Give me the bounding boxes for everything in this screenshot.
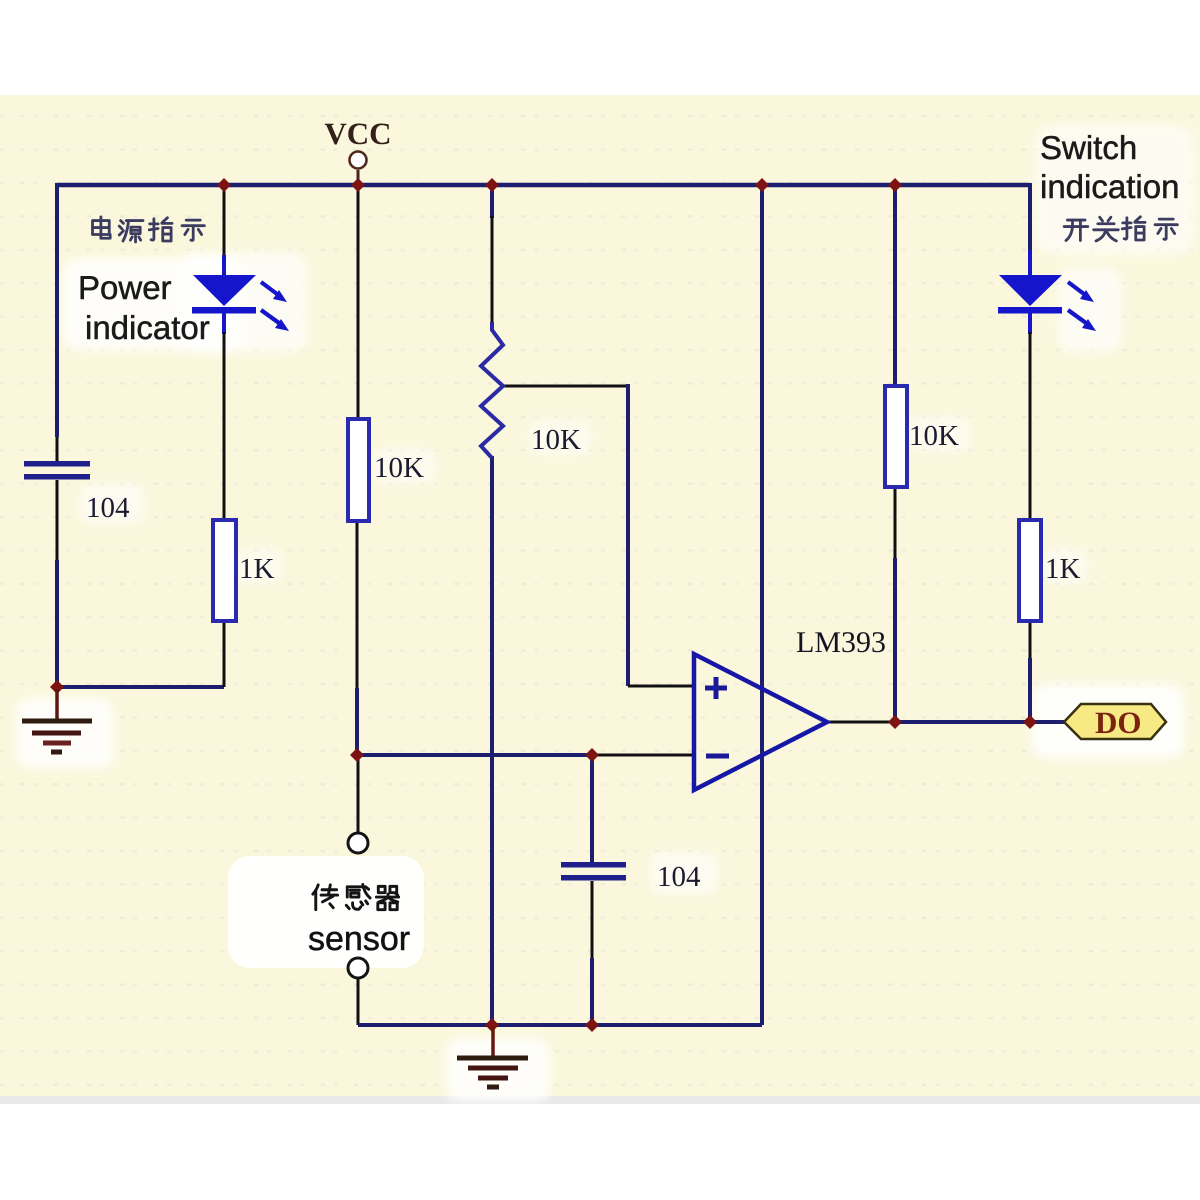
wire sensor top xyxy=(357,755,360,832)
capacitor C2 xyxy=(561,861,701,893)
svg-text:DO: DO xyxy=(1095,705,1142,740)
svg-text:LM393: LM393 xyxy=(796,626,886,659)
LED D1 power indicator xyxy=(192,275,289,331)
wire wiper vertical xyxy=(626,384,630,686)
wire R1 bottom lead xyxy=(356,521,359,690)
potentiometer RP 10K xyxy=(481,322,581,458)
wire VCC top bus xyxy=(57,183,1030,188)
resistor R3 10K xyxy=(885,386,959,487)
wire C2 to ground bus xyxy=(590,958,594,1025)
wire non-inverting stub xyxy=(628,685,694,688)
wire R1 branch upper xyxy=(357,187,360,419)
wire LED1 cathode lead xyxy=(222,312,226,334)
wire R3 bottom lead xyxy=(894,487,897,560)
wire op-amp output xyxy=(827,721,900,724)
svg-text:1K: 1K xyxy=(239,553,275,585)
svg-text:indicator: indicator xyxy=(85,309,210,346)
svg-text:10K: 10K xyxy=(531,424,581,456)
wire horizontal to 1K xyxy=(57,685,224,689)
wire ground bus bottom xyxy=(358,1023,762,1027)
wire inverting input xyxy=(357,753,592,757)
wire R1 to node A xyxy=(355,688,359,755)
svg-text:1K: 1K xyxy=(1045,553,1081,585)
wire LED1 branch upper xyxy=(223,185,226,257)
wire output to DO xyxy=(898,720,1064,724)
svg-text:sensor: sensor xyxy=(308,920,410,958)
wire LED2 to R4 xyxy=(1029,332,1032,520)
ground GND1 xyxy=(22,689,92,752)
svg-text:10K: 10K xyxy=(374,452,424,484)
wire RP branch upper xyxy=(490,185,494,218)
svg-text:Switch: Switch xyxy=(1040,129,1137,166)
port DO xyxy=(1064,704,1166,740)
wire LED2 anode lead xyxy=(1028,250,1032,276)
wire R4 bottom lead xyxy=(1029,621,1032,660)
sensor terminal top xyxy=(348,833,368,853)
wire LED1 anode lead xyxy=(222,255,226,276)
wire LED2 cathode lead xyxy=(1028,312,1032,334)
wire left rail upper xyxy=(55,183,59,437)
op-amp U1 LM393 xyxy=(694,626,886,790)
wire RP wiper tap xyxy=(503,385,628,388)
wire left cap bottom lead xyxy=(56,480,59,560)
wire LED2 branch upper xyxy=(1028,183,1032,252)
wire LED1 to R2 xyxy=(223,332,226,520)
wire RP top lead xyxy=(491,216,494,326)
wire R4 to output node xyxy=(1028,658,1032,722)
label 传感器 xyxy=(313,884,399,909)
wire sensor bottom xyxy=(357,978,360,1025)
resistor R2 1K xyxy=(213,520,275,621)
label 电源指示 xyxy=(93,217,205,242)
sensor terminal bottom xyxy=(348,958,368,978)
wire R3 branch upper xyxy=(893,187,897,386)
wire left rail lower xyxy=(55,560,59,687)
label 开关指示 xyxy=(1064,217,1177,241)
wire R3 to output node xyxy=(893,558,897,722)
svg-text:VCC: VCC xyxy=(324,116,391,151)
resistor R4 1K xyxy=(1019,520,1081,621)
wire RP bottom to ground bus xyxy=(490,456,494,1025)
svg-text:104: 104 xyxy=(657,861,701,893)
capacitor C1 xyxy=(24,461,130,524)
resistor R1 10K xyxy=(348,419,424,521)
wire R2 bottom lead xyxy=(223,621,226,687)
svg-text:indication: indication xyxy=(1040,168,1179,205)
wire inverting input stub xyxy=(592,754,694,757)
svg-text:104: 104 xyxy=(86,492,130,524)
LED D2 switch indicator xyxy=(998,275,1096,331)
svg-text:10K: 10K xyxy=(909,420,959,452)
wire C2 bottom lead xyxy=(591,881,594,960)
svg-text:Power: Power xyxy=(78,269,172,306)
wire supply drop through U1 xyxy=(760,185,764,1025)
wire C2 top lead xyxy=(590,753,594,863)
power port VCC xyxy=(324,116,391,182)
junction node dots xyxy=(50,178,1037,1032)
ground GND2 xyxy=(457,1027,528,1087)
white halos xyxy=(16,125,1195,1102)
wire left cap top lead xyxy=(56,437,59,461)
